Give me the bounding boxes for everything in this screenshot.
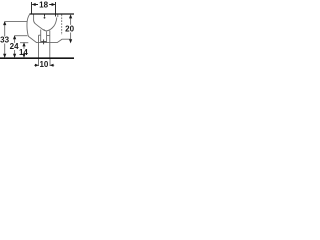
svg-text:24: 24 [10,42,19,51]
svg-text:10: 10 [39,60,48,69]
svg-text:14: 14 [19,48,28,57]
svg-text:18: 18 [39,1,48,10]
svg-text:20: 20 [65,24,74,33]
svg-text:33: 33 [0,36,9,45]
